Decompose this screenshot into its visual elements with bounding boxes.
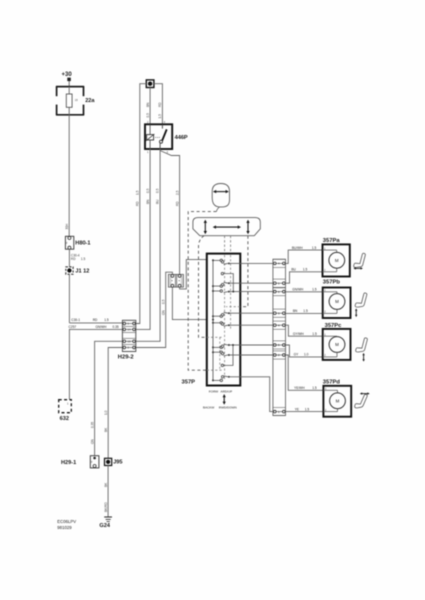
switch pack 357P [207, 254, 241, 386]
wire junction to 446P coil [149, 88, 151, 125]
svg-text:GN/WH: GN/WH [292, 288, 304, 292]
svg-text:446P: 446P [175, 135, 188, 141]
svg-text:M: M [335, 299, 339, 304]
fuse element 22a [66, 94, 72, 107]
wire +30 to fuse 22a [68, 81, 70, 87]
direction arrow below 357P [223, 394, 226, 405]
seat icon 357Pb (front height) [355, 293, 367, 307]
svg-text:BN: BN [146, 102, 150, 107]
contact 3 [213, 290, 240, 293]
svg-text:F: F [91, 460, 93, 464]
bridge wire lower [223, 345, 233, 365]
svg-text:1.5: 1.5 [312, 288, 317, 292]
wires strip to motors [285, 250, 323, 412]
wire H29-2 pin4 to J95 [108, 348, 123, 459]
svg-text:981029: 981029 [57, 525, 72, 530]
wire connector to 357P feed high [180, 260, 207, 289]
svg-text:H29-1: H29-1 [61, 460, 76, 466]
svg-text:RWD/DOWN: RWD/DOWN [219, 405, 237, 409]
wire junction to H29-2 pin1 right [135, 84, 146, 324]
svg-text:1.5: 1.5 [158, 114, 162, 119]
svg-text:GY/WH: GY/WH [293, 332, 304, 336]
svg-text:H80-1: H80-1 [75, 240, 90, 246]
bus junction dots [212, 259, 214, 381]
svg-text:1: 1 [67, 402, 69, 406]
svg-text:1.5: 1.5 [303, 268, 308, 272]
motor 357Pc [323, 323, 351, 360]
relay 446P [145, 120, 188, 154]
wire 446P contact to H29-2 pin3 [135, 149, 160, 341]
connector strip right [273, 259, 286, 415]
svg-text:GN: GN [90, 439, 94, 444]
svg-text:FORW: FORW [209, 389, 218, 393]
coil of 446P [147, 135, 154, 140]
headrest arrow [213, 190, 229, 193]
svg-text:RD: RD [175, 201, 179, 206]
svg-text:EC06LPV: EC06LPV [57, 519, 76, 524]
svg-text:M: M [335, 342, 339, 347]
svg-text:1: 1 [324, 332, 326, 336]
wire 446P coil to H29-2 pin2 [135, 149, 150, 330]
junction J95 [105, 458, 123, 465]
connector H29-2 [118, 320, 136, 360]
svg-text:1.5: 1.5 [81, 257, 86, 261]
motor 357Pa [323, 238, 350, 277]
wire junction to 446P contact [154, 84, 163, 125]
inline connector 2x2 [168, 274, 183, 287]
svg-text:1.5: 1.5 [312, 332, 317, 336]
357P supply bus [212, 260, 214, 381]
arrow front height [355, 308, 357, 317]
svg-text:GN/WH: GN/WH [96, 325, 108, 329]
svg-text:357Pd: 357Pd [323, 379, 341, 385]
wire fuse to H80-1 [68, 115, 70, 237]
node +30 supply [62, 72, 73, 81]
svg-text:C30-1: C30-1 [71, 318, 80, 322]
svg-text:0.5: 0.5 [161, 299, 165, 304]
connector H80-1 [65, 236, 90, 249]
ground G24 [99, 517, 112, 529]
label FORW ARD/UP with arrow [203, 389, 237, 409]
svg-text:BU/WH: BU/WH [292, 246, 303, 250]
svg-text:1.0: 1.0 [304, 353, 309, 357]
svg-text:0.5: 0.5 [156, 188, 160, 193]
svg-text:1.0: 1.0 [104, 410, 108, 415]
fuse 22a [56, 87, 84, 115]
contact 2 [213, 282, 240, 287]
svg-text:+30: +30 [62, 72, 73, 78]
svg-text:357Pb: 357Pb [323, 280, 341, 286]
svg-text:BACKW: BACKW [203, 405, 214, 409]
svg-text:GN: GN [161, 310, 165, 315]
svg-text:22a: 22a [85, 98, 95, 104]
contact 6 [213, 344, 240, 349]
seat icon 357Pd (backrest tilt) [355, 394, 368, 408]
junction node box [146, 80, 154, 88]
svg-text:YE/WH: YE/WH [294, 386, 305, 390]
contact 5 [213, 322, 240, 327]
svg-text:RD: RD [136, 201, 140, 206]
svg-text:G24: G24 [99, 523, 110, 529]
wire RD to H29-2 pin 1 [69, 322, 123, 324]
svg-text:15: 15 [75, 98, 78, 102]
svg-text:1.5: 1.5 [303, 309, 308, 313]
contact 4 [213, 312, 240, 317]
wire through fuse [68, 87, 70, 115]
svg-text:0.5: 0.5 [146, 113, 150, 118]
svg-text:1: 1 [324, 246, 326, 250]
svg-text:0.5: 0.5 [146, 188, 150, 193]
svg-text:BK: BK [104, 427, 108, 432]
switch contact of 446P [161, 124, 163, 128]
wire J95 to ground G24 [107, 466, 109, 517]
arrow fore/aft [353, 267, 363, 269]
wire J1 down [68, 274, 70, 323]
svg-text:BU: BU [291, 268, 296, 272]
wire 446P contact to connector (diagonal) [160, 151, 179, 275]
arrow backrest tilt [360, 392, 370, 394]
footer plate text [57, 519, 76, 530]
svg-text:M: M [335, 258, 339, 263]
svg-text:1.5: 1.5 [312, 386, 317, 390]
contact 8 [213, 376, 240, 382]
svg-text:BK: BK [104, 482, 108, 487]
svg-text:M: M [336, 398, 340, 403]
wire labels right side [291, 246, 317, 411]
seat arrows [204, 220, 250, 235]
motor 357Pd [323, 379, 351, 416]
junction J1 12 [66, 267, 90, 275]
svg-text:GY: GY [294, 353, 299, 357]
svg-text:RD: RD [71, 257, 76, 261]
svg-text:0.35: 0.35 [113, 325, 119, 329]
seat symbol (top) [193, 218, 260, 236]
seat right linkage dashed [240, 236, 248, 307]
motor 357Pb [323, 280, 351, 318]
svg-text:0.35: 0.35 [90, 422, 94, 428]
svg-text:632: 632 [60, 416, 69, 422]
svg-text:H29-2: H29-2 [118, 355, 134, 361]
svg-text:RD: RD [93, 318, 98, 322]
svg-text:ARD/UP: ARD/UP [221, 389, 233, 393]
wire connector to H29-2 pin4 [135, 272, 172, 347]
svg-text:BN: BN [146, 199, 150, 204]
wire H29-2 pin3 to H29-1 [95, 341, 123, 455]
seat left linkage dashed [199, 236, 207, 338]
contact 7 [213, 351, 240, 356]
wires 357P to strip [240, 263, 273, 411]
svg-text:357P: 357P [182, 380, 196, 386]
svg-text:1.5: 1.5 [312, 246, 317, 250]
seat middle linkage dashed [224, 236, 226, 254]
svg-text:BK/RD: BK/RD [104, 502, 108, 512]
svg-text:J95: J95 [113, 460, 122, 466]
svg-text:1.5: 1.5 [104, 318, 109, 322]
module 632 (dashed, other diagram) [59, 400, 72, 422]
wire H80-1 to J1 [68, 249, 70, 267]
seat icon 357Pa (fore/aft) [354, 253, 366, 267]
svg-text:357Pa: 357Pa [323, 238, 341, 244]
svg-text:2.5: 2.5 [175, 190, 179, 195]
svg-text:YE: YE [295, 407, 299, 411]
headrest linkage dashed [216, 207, 219, 212]
contact 1 [213, 259, 240, 264]
headrest symbol [212, 184, 229, 207]
svg-text:1.5: 1.5 [136, 190, 140, 195]
svg-text:RD: RD [158, 102, 162, 107]
wire GN/WH to H29-2 pin 2 and 632 [69, 329, 123, 399]
svg-text:1: 1 [147, 150, 149, 154]
svg-text:F: F [66, 241, 68, 245]
svg-text:BN: BN [293, 309, 298, 313]
svg-text:30H: 30H [65, 223, 69, 230]
connector H29-1 [61, 456, 99, 468]
357P internal linkage dashed columns [224, 255, 226, 379]
seat icon 357Pc (rear height) [356, 338, 368, 352]
bridge wire upper [223, 274, 233, 292]
svg-text:1.5: 1.5 [305, 407, 310, 411]
svg-text:J1 12: J1 12 [75, 269, 89, 275]
svg-text:C257: C257 [69, 325, 77, 329]
svg-text:BU: BU [156, 199, 160, 204]
arrow rear height [362, 353, 364, 362]
wire connector to 357P feed low [172, 287, 206, 320]
svg-text:2: 2 [325, 408, 327, 412]
